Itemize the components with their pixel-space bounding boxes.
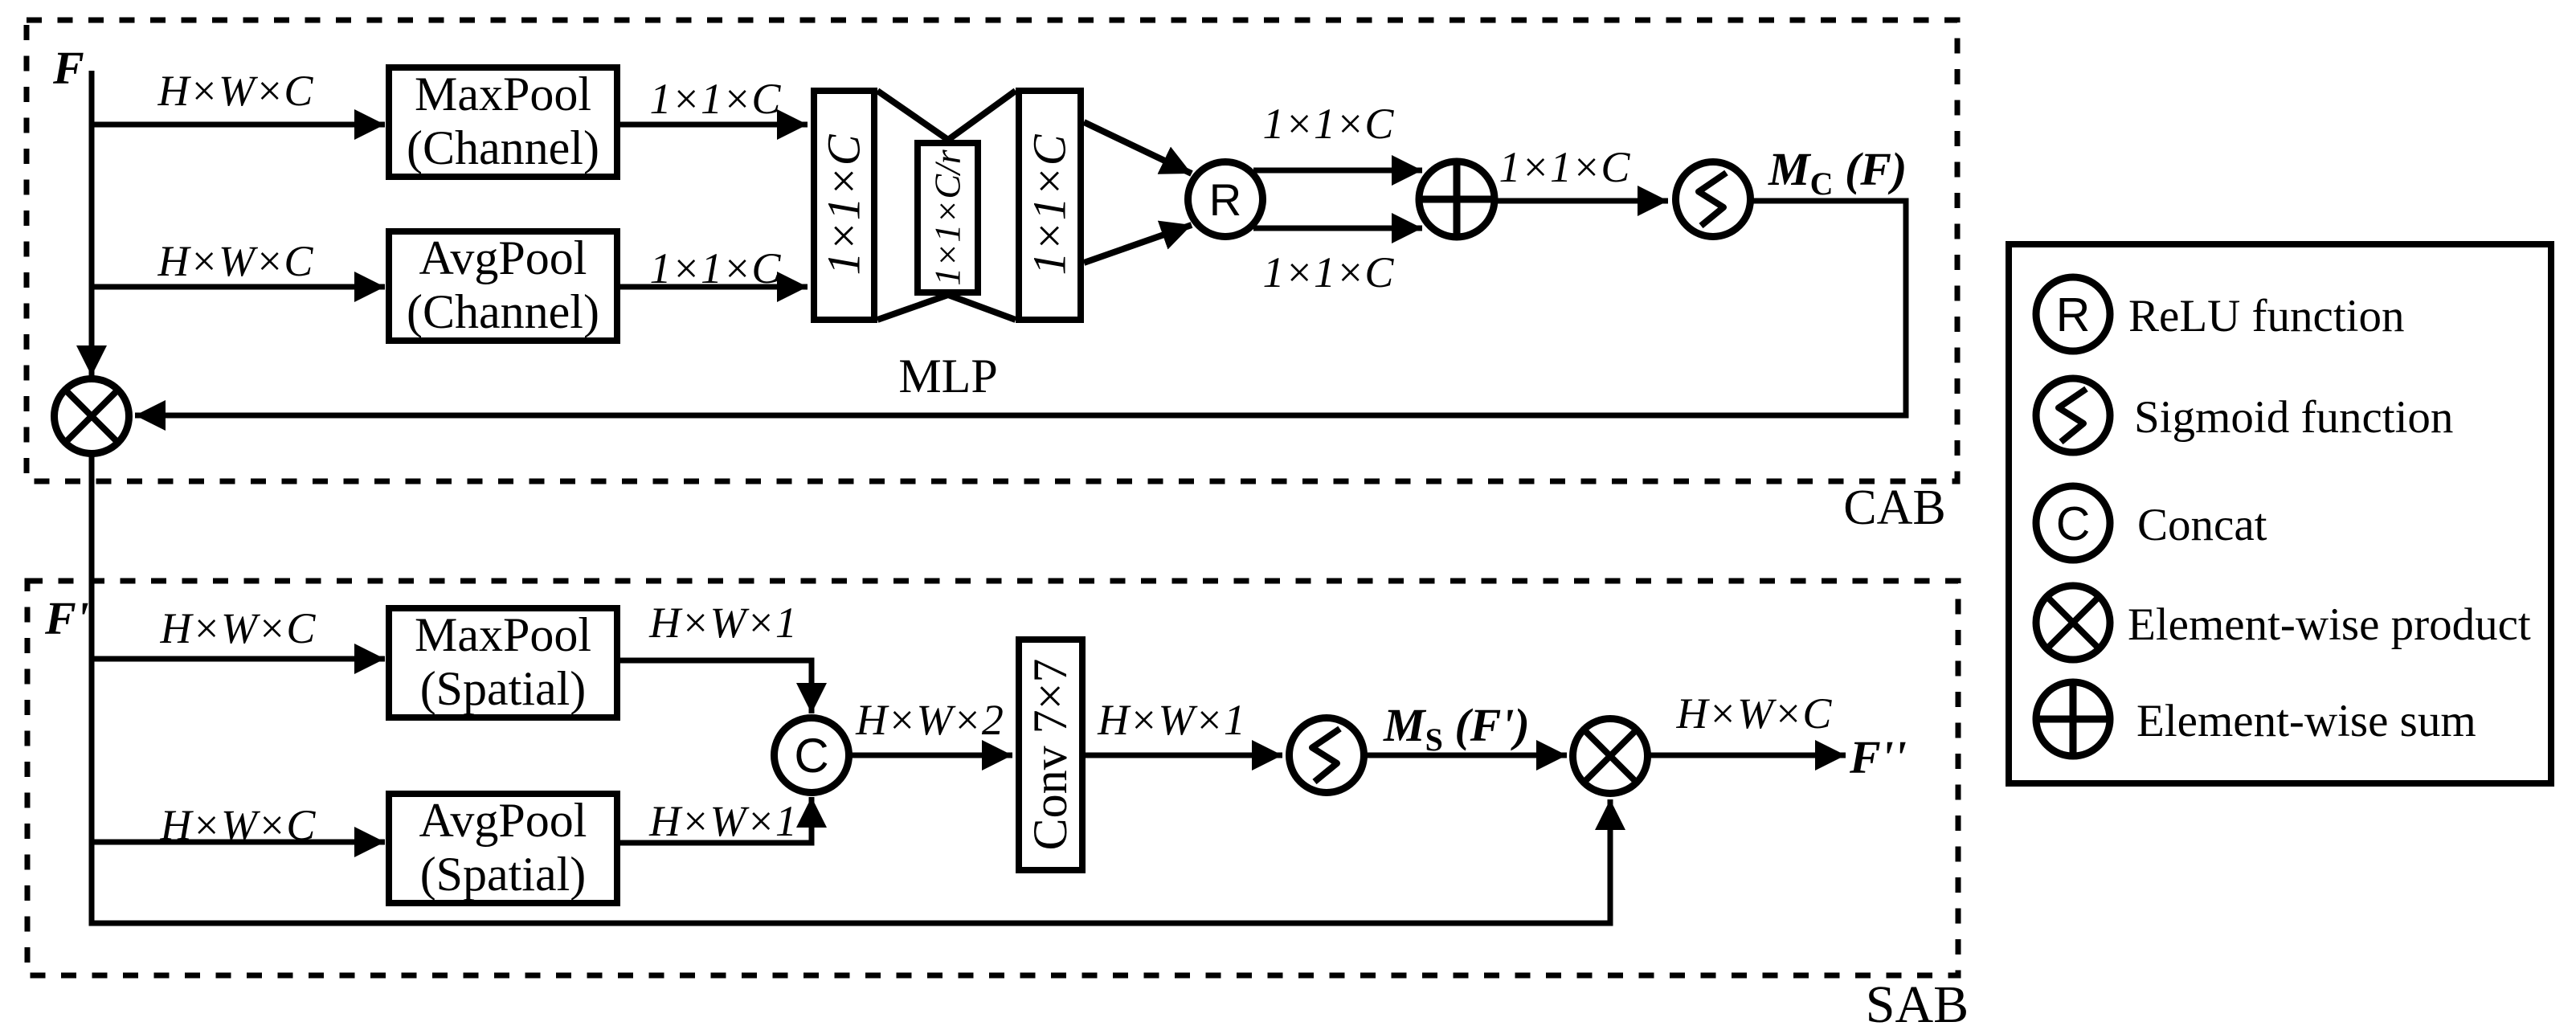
op-amp R relu circle — [1188, 162, 1263, 237]
svg-text:1×1×C: 1×1×C — [1024, 133, 1076, 275]
svg-text:Concat: Concat — [2137, 500, 2267, 550]
svg-text:Element-wise product: Element-wise product — [2128, 599, 2531, 650]
box AvgPool (Spatial) — [389, 794, 617, 903]
wire R to sum upper — [1253, 168, 1422, 174]
svg-text:H×W×C: H×W×C — [157, 67, 314, 115]
wire sigmoid to product SAB — [1367, 753, 1567, 758]
svg-text:(Channel): (Channel) — [407, 121, 599, 174]
svg-text:R: R — [1209, 174, 1241, 225]
legend sigmoid circle — [2036, 378, 2110, 452]
svg-text:MS (F'): MS (F') — [1383, 699, 1530, 758]
wire AvgPool(Spatial) to concat — [620, 797, 812, 843]
legend box — [2009, 244, 2551, 783]
wire MLP lower diagonal to R — [1084, 225, 1192, 263]
CAB dashed border — [27, 20, 1957, 481]
svg-text:H×W×C: H×W×C — [157, 237, 314, 285]
concat circle C — [775, 718, 849, 793]
box MaxPool (Channel) — [389, 67, 617, 177]
svg-text:(Spatial): (Spatial) — [420, 848, 587, 901]
svg-text:MLP: MLP — [898, 349, 997, 403]
MLP bowtie lines — [877, 91, 1016, 320]
svg-text:C: C — [794, 729, 828, 783]
svg-text:F'': F'' — [1849, 731, 1907, 783]
box AvgPool (Channel) — [389, 231, 617, 341]
legend product circle — [2036, 586, 2110, 660]
sigmoid circle SAB — [1290, 718, 1364, 793]
legend R circle — [2036, 277, 2110, 351]
wire R to sum lower — [1253, 226, 1422, 231]
svg-text:F: F — [52, 42, 84, 94]
legend concat circle — [2036, 486, 2110, 560]
svg-text:1×1×C: 1×1×C — [650, 244, 782, 292]
svg-text:H×W×2: H×W×2 — [855, 696, 1004, 744]
wire MaxPool(Spatial) to concat — [620, 660, 812, 713]
wire F to AvgPool(Channel) — [92, 284, 385, 290]
svg-text:1×1×C: 1×1×C — [818, 133, 870, 275]
svg-text:Element-wise sum: Element-wise sum — [2136, 696, 2476, 746]
wire F' to MaxPool(Spatial) — [92, 656, 385, 662]
MLP middle layer rect 1x1xC/r — [918, 143, 978, 292]
sigmoid circle CAB — [1676, 162, 1751, 237]
MLP left layer rect 1x1xC — [814, 91, 874, 320]
svg-text:AvgPool: AvgPool — [419, 231, 587, 284]
svg-text:R: R — [2056, 288, 2091, 341]
wire AvgPool to MLP — [620, 284, 808, 290]
svg-text:MaxPool: MaxPool — [415, 608, 591, 661]
svg-text:F': F' — [44, 592, 89, 644]
svg-text:MaxPool: MaxPool — [415, 67, 591, 121]
box Conv 7x7 — [1019, 640, 1082, 870]
svg-text:H×W×1: H×W×1 — [648, 797, 797, 845]
wire sum to sigmoid — [1498, 198, 1668, 204]
svg-text:H×W×C: H×W×C — [1676, 689, 1833, 738]
svg-text:H×W×C: H×W×C — [160, 801, 317, 849]
wire F' to AvgPool(Spatial) — [92, 840, 385, 845]
svg-text:H×W×1: H×W×1 — [1097, 696, 1245, 744]
svg-text:1×1×C: 1×1×C — [650, 75, 782, 123]
wire F to MaxPool(Channel) — [92, 122, 385, 128]
wire product to F'' — [1650, 753, 1846, 758]
svg-text:MC (F): MC (F) — [1768, 143, 1907, 202]
svg-text:1×1×C: 1×1×C — [1263, 100, 1395, 148]
svg-text:ReLU function: ReLU function — [2128, 291, 2405, 341]
svg-text:CAB: CAB — [1843, 480, 1945, 535]
wire MLP upper diagonal to R — [1084, 122, 1192, 174]
legend sum circle — [2034, 680, 2112, 758]
svg-text:1×1×C: 1×1×C — [1499, 143, 1631, 191]
svg-text:(Channel): (Channel) — [407, 285, 599, 338]
MLP right layer rect 1x1xC — [1019, 91, 1081, 320]
svg-text:AvgPool: AvgPool — [419, 794, 587, 847]
element-wise product circle SAB — [1573, 719, 1648, 794]
svg-text:H×W×C: H×W×C — [160, 604, 317, 652]
svg-text:1×1×C: 1×1×C — [1263, 248, 1395, 296]
svg-text:SAB: SAB — [1866, 975, 1969, 1026]
wire concat to conv — [852, 753, 1012, 758]
svg-text:Conv 7×7: Conv 7×7 — [1024, 659, 1077, 851]
wire MaxPool to MLP — [620, 122, 808, 128]
svg-text:1×1×C/r: 1×1×C/r — [927, 149, 968, 286]
element-wise product circle CAB — [55, 379, 129, 454]
SAB dashed border — [27, 581, 1958, 975]
box MaxPool (Spatial) — [389, 608, 617, 717]
wire sigmoid output feedback to product — [135, 201, 1906, 415]
svg-text:Sigmoid function: Sigmoid function — [2134, 392, 2453, 443]
svg-text:(Spatial): (Spatial) — [420, 662, 587, 715]
wire F vertical into product — [89, 71, 95, 376]
element-wise sum circle CAB — [1416, 158, 1498, 240]
wire conv to sigmoid — [1086, 753, 1282, 758]
svg-text:H×W×1: H×W×1 — [648, 599, 797, 647]
wire product down to SAB rail — [92, 456, 1610, 923]
svg-text:C: C — [2056, 497, 2091, 550]
